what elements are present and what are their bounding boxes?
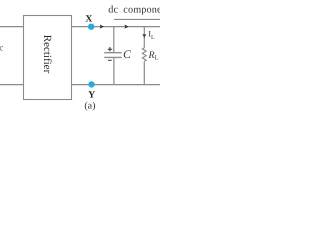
svg-text:C: C <box>123 49 131 61</box>
wire output bottom (node Y to load) <box>72 84 161 86</box>
label + polarity <box>108 47 113 51</box>
svg-text:Rectifier: Rectifier <box>41 35 53 74</box>
svg-text:Y: Y <box>88 91 95 101</box>
current arrow I_L (down) <box>142 34 146 38</box>
label - polarity <box>108 59 112 61</box>
wire output top (node X to load) <box>72 26 161 28</box>
wire load branch lower <box>143 61 145 84</box>
svg-text:IL: IL <box>148 29 155 41</box>
svg-text:(a): (a) <box>84 101 95 112</box>
rectifier block U1 <box>24 16 72 100</box>
current arrow on top wire (right) <box>124 25 128 29</box>
wire capacitor branch lower <box>113 58 115 85</box>
node X <box>88 24 94 30</box>
capacitor C bottom plate <box>104 56 122 58</box>
svg-text:X: X <box>85 14 92 24</box>
wire load branch upper <box>143 27 145 48</box>
svg-text:c: c <box>0 43 3 53</box>
wire ac input bottom-left <box>0 84 24 86</box>
capacitor C top plate <box>104 52 122 54</box>
wire capacitor branch upper <box>113 27 115 52</box>
svg-text:RL: RL <box>148 50 159 62</box>
wire partial line top-right (clipped) <box>114 18 160 20</box>
svg-text:dc component: dc component <box>108 4 160 15</box>
wire ac input top-left <box>0 26 24 28</box>
node Y <box>88 81 94 87</box>
resistor R_L zigzag <box>142 48 146 62</box>
current arrow on top wire (left) <box>100 25 104 29</box>
